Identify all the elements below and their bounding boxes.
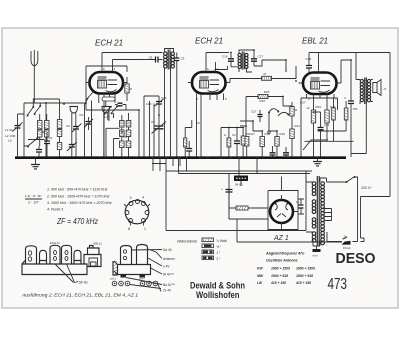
svg-text:3: 3 xyxy=(130,196,132,200)
sketch B bracket xyxy=(113,261,118,275)
svg-text:1μ: 1μ xyxy=(296,200,300,204)
svg-text:Ausführung 2: ECH 21, ECH 21,: Ausführung 2: ECH 21, ECH 21, EBL 21, EM… xyxy=(21,293,138,299)
svg-text:ECH 21: ECH 21 xyxy=(95,39,123,48)
svg-text:C · 10⁶: C · 10⁶ xyxy=(28,201,39,205)
trimmer group 1 xyxy=(112,281,117,286)
svg-text:C5: C5 xyxy=(66,124,70,128)
bus junction dots xyxy=(199,157,201,159)
svg-text:Widerstände: Widerstände xyxy=(177,240,197,244)
wire EBL grid xyxy=(286,66,296,72)
svg-text:2A: 2A xyxy=(344,235,348,239)
wire box over tube2 xyxy=(206,53,229,70)
wire plate tube3 xyxy=(341,53,356,84)
svg-text:L5: L5 xyxy=(8,139,12,143)
trimmer group 2 xyxy=(140,281,145,286)
svg-text:Wollishofen: Wollishofen xyxy=(196,289,240,300)
wire box over tube1 xyxy=(86,53,163,73)
switch S1a pole2 xyxy=(35,107,41,114)
leader lines from trimmers xyxy=(130,285,161,292)
wire antenna to switch xyxy=(24,103,46,157)
ground G1 xyxy=(31,165,40,169)
svg-text:Da 4V: Da 4V xyxy=(163,248,173,252)
resistor block Rd xyxy=(45,130,50,137)
svg-text:R4: R4 xyxy=(124,135,128,139)
trimmer C5 xyxy=(69,145,75,148)
svg-text:R17: R17 xyxy=(250,132,256,136)
sketch A IF can 1 xyxy=(26,246,37,264)
switch S2a xyxy=(105,107,111,114)
resistor R6 xyxy=(126,141,131,148)
tube U2 pin stubs xyxy=(188,53,230,158)
capacitor C20a xyxy=(118,103,123,106)
svg-text:C33: C33 xyxy=(306,57,312,61)
svg-text:220 V~: 220 V~ xyxy=(361,186,373,190)
tube U3 pin stubs xyxy=(299,53,342,111)
svg-text:¼ Watt: ¼ Watt xyxy=(217,239,227,243)
wire transformer drop xyxy=(351,104,366,154)
svg-text:W 4V™: W 4V™ xyxy=(163,273,174,277)
svg-text:4: 4 xyxy=(142,196,144,200)
svg-text:18: 18 xyxy=(129,87,133,91)
switch S1b xyxy=(28,139,37,147)
capacitor C8 xyxy=(156,57,159,63)
sketch A tube can 2 xyxy=(50,245,60,264)
capacitor C17 xyxy=(251,59,257,61)
svg-text:C2: C2 xyxy=(232,133,236,137)
resistor R19 xyxy=(275,137,279,147)
wire xyxy=(28,114,47,146)
svg-text:C8: C8 xyxy=(149,56,153,60)
svg-text:50 Hz: 50 Hz xyxy=(79,281,88,285)
tube U2 ECH21 envelope xyxy=(192,72,226,94)
capacitor C40 electrolytic xyxy=(226,190,233,193)
tube U1 pin stubs xyxy=(86,53,127,111)
svg-text:EBL 21: EBL 21 xyxy=(302,37,328,46)
wire xyxy=(229,157,257,219)
resistor R24 xyxy=(325,110,329,123)
wire tube3 bottom rail xyxy=(301,98,338,157)
svg-text:C9: C9 xyxy=(151,120,155,124)
capacitor C33 xyxy=(306,66,312,69)
svg-text:DESO: DESO xyxy=(336,251,376,267)
svg-text:1: 1 xyxy=(144,227,146,231)
wire speaker line xyxy=(389,53,391,197)
osc coil L8 xyxy=(126,121,131,128)
shield partition xyxy=(85,97,89,157)
svg-text:ZF = 470 kHz: ZF = 470 kHz xyxy=(56,217,98,226)
svg-text:2x 4V: 2x 4V xyxy=(163,289,172,293)
connector lug xyxy=(313,249,321,252)
output transformer T3 xyxy=(360,79,370,101)
svg-text:C4: C4 xyxy=(49,136,53,140)
small value labels xyxy=(49,79,367,140)
svg-text:KW: KW xyxy=(257,267,263,271)
antenna xyxy=(31,50,38,103)
resistor R20 xyxy=(290,107,294,117)
tube U1 ECH21 envelope xyxy=(90,72,124,94)
tube U2 electrodes xyxy=(200,77,209,79)
svg-text:ECH 21: ECH 21 xyxy=(50,241,60,245)
wire T4 top leads xyxy=(306,177,327,183)
chassis sketch A base xyxy=(22,255,101,275)
svg-text:+: + xyxy=(221,188,223,192)
enclosure wire box xyxy=(166,157,306,231)
wire T4 bottom leads xyxy=(306,232,320,249)
junction dots xyxy=(63,49,352,141)
svg-text:04 00: 04 00 xyxy=(235,183,243,187)
svg-text:T: T xyxy=(364,79,366,83)
T4 secondary windings xyxy=(321,182,325,245)
main ground bus xyxy=(15,156,346,159)
sketch A small tube 2 xyxy=(74,250,81,264)
capacitor C3 xyxy=(36,150,42,153)
svg-text:R18: R18 xyxy=(265,132,271,136)
sketch A small tube 1 xyxy=(40,250,47,264)
svg-text:L2 13M: L2 13M xyxy=(5,134,16,138)
wire osc grid xyxy=(106,113,129,157)
svg-text:1r: 1r xyxy=(224,133,227,137)
tube U3 EBL21 envelope xyxy=(303,73,337,95)
chassis sketch B base xyxy=(114,261,151,275)
trimmer C1 xyxy=(15,126,21,129)
svg-text:415 + 150: 415 + 150 xyxy=(295,281,311,285)
svg-text:Abgleichfrequenz 47o: Abgleichfrequenz 47o xyxy=(265,252,305,256)
svg-text:mm: mm xyxy=(313,254,318,258)
capacitor C4 xyxy=(44,141,50,144)
leader lines to 50Hz xyxy=(55,264,78,283)
resistor block Rb xyxy=(45,121,50,130)
node A junction xyxy=(45,102,47,104)
fuse F1 xyxy=(342,241,351,245)
capacitor C29 xyxy=(283,153,289,155)
svg-text:473: 473 xyxy=(328,276,348,293)
svg-text:L·p · d · w²: L·p · d · w² xyxy=(25,194,42,198)
rectifier tube U4 AZ1 xyxy=(270,200,293,223)
resistor R2 xyxy=(125,84,129,93)
svg-text:C10: C10 xyxy=(161,96,167,100)
svg-text:C17: C17 xyxy=(258,55,264,59)
capacitor C34 xyxy=(318,128,324,130)
svg-text:R21: R21 xyxy=(295,124,301,128)
svg-text:12: 12 xyxy=(307,106,311,110)
IF transformer T1 xyxy=(164,52,175,68)
svg-text:1500 + 518: 1500 + 518 xyxy=(296,274,313,278)
wire left drop xyxy=(85,66,87,110)
svg-text:1600 + 1500: 1600 + 1500 xyxy=(296,267,315,271)
mains switch S4 xyxy=(347,177,355,182)
osc coil L9 xyxy=(120,130,125,137)
svg-text:Oszillator Antenne: Oszillator Antenne xyxy=(266,259,298,263)
oscillator section wires xyxy=(86,110,139,157)
svg-text:EBL21: EBL21 xyxy=(94,242,103,246)
sketch A tube can 3 xyxy=(62,245,72,264)
resistor R18 xyxy=(260,137,264,147)
wire box over tube3 xyxy=(309,52,390,54)
svg-text:8: 8 xyxy=(128,227,130,231)
wire grid to tube1 xyxy=(46,93,86,103)
leader lines to right labels xyxy=(126,249,162,285)
svg-text:R1: R1 xyxy=(80,113,84,117)
tube U3 electrodes xyxy=(311,78,320,80)
tube U4 filament xyxy=(275,204,288,217)
filter choke L10 xyxy=(234,176,248,182)
svg-text:750: 750 xyxy=(353,107,358,111)
wire mains top xyxy=(327,181,347,183)
svg-text:C9: C9 xyxy=(196,121,200,125)
heater comb wires xyxy=(152,157,187,171)
resistor R13 xyxy=(241,136,245,145)
T4 primary windings xyxy=(312,182,316,242)
band switch arcs S3 xyxy=(269,109,288,116)
resistor R26v xyxy=(344,108,348,120)
IF transformer T2 xyxy=(238,53,248,68)
resistor Re xyxy=(57,120,62,129)
svg-text:R24: R24 xyxy=(330,105,336,109)
wire screen rail xyxy=(304,131,353,141)
ground G2 xyxy=(313,162,322,166)
svg-text:Antenne: Antenne xyxy=(163,257,175,261)
resistor R23 xyxy=(311,110,315,123)
resistor R16 xyxy=(258,95,268,99)
resistor R25 xyxy=(332,108,336,120)
capacitor C14 xyxy=(186,149,192,152)
trimmer C10 xyxy=(156,102,162,105)
wire diag tube1 cathode xyxy=(86,92,94,101)
svg-text:4. Punkt 3: 4. Punkt 3 xyxy=(47,208,63,212)
svg-text:C20: C20 xyxy=(146,102,152,106)
svg-text:1500 + 518: 1500 + 518 xyxy=(271,274,288,278)
svg-text:1. 600 kHz : 600+470 kHz = 1: 1. 600 kHz : 600+470 kHz = 1130 kHz xyxy=(47,188,108,192)
wire AZ1 leads xyxy=(268,195,298,230)
svg-text:d e f: d e f xyxy=(139,277,145,281)
resistor R17 xyxy=(245,137,249,147)
svg-text:R26: R26 xyxy=(264,90,270,94)
svg-text:2. 600 kHz : 1600+470 kHz = 1: 2. 600 kHz : 1600+470 kHz = 1070 kHz xyxy=(46,195,110,199)
resistor R15 xyxy=(262,76,272,80)
T4 tap leads xyxy=(324,209,332,221)
svg-text:AZ 1: AZ 1 xyxy=(273,235,289,242)
speaker LS xyxy=(373,80,381,96)
wire xyxy=(33,99,59,157)
resistor R30 xyxy=(236,206,248,210)
svg-text:15mA: 15mA xyxy=(343,246,350,250)
wire xyxy=(91,101,93,158)
svg-text:‹ 5: ‹ 5 xyxy=(383,87,387,91)
sketch A speaker unit xyxy=(88,246,100,255)
resistor R21 xyxy=(290,129,294,139)
grid box rail xyxy=(221,128,244,158)
coupling pill L6 xyxy=(102,97,115,101)
svg-text:C34: C34 xyxy=(324,123,330,127)
tube U1 electrodes xyxy=(98,77,107,79)
svg-text:C16: C16 xyxy=(222,55,228,59)
resistor R14 xyxy=(184,138,187,147)
wires into middle network xyxy=(240,113,269,131)
AZ1 enclosure box xyxy=(268,177,298,230)
resistor block Ra xyxy=(38,121,43,130)
capacitor C13 xyxy=(234,141,240,144)
sketch B feet xyxy=(121,275,127,278)
B+ rail lower xyxy=(179,173,311,175)
B+ rail upper xyxy=(166,170,312,172)
capacitor C35 xyxy=(348,101,354,104)
svg-text:MW: MW xyxy=(257,274,264,278)
wire xyxy=(24,132,48,146)
capacitor C27 xyxy=(258,115,263,117)
resistor R5 xyxy=(120,141,125,148)
wire B- return xyxy=(237,219,342,242)
tuning gang C9 xyxy=(155,126,164,129)
trimmer C21 xyxy=(86,122,92,125)
svg-text:LW: LW xyxy=(257,281,263,285)
svg-text:C27: C27 xyxy=(251,110,257,114)
capacitor C16 xyxy=(228,59,234,61)
gang capacitor C2a cup xyxy=(70,106,79,108)
svg-text:C9: C9 xyxy=(181,57,185,61)
svg-text:47: 47 xyxy=(263,72,267,76)
wire verticals under tube2 xyxy=(144,96,159,157)
capacitor C9b xyxy=(174,58,179,61)
resistor R12 xyxy=(227,138,231,147)
switch S1a xyxy=(28,108,34,116)
sketch B tube A xyxy=(121,246,132,265)
power transformer T4 core xyxy=(317,176,319,246)
svg-text:R23: R23 xyxy=(316,105,322,109)
resistor R4 xyxy=(126,130,131,137)
svg-text:Ba 4V™: Ba 4V™ xyxy=(163,283,175,287)
svg-text:L7: L7 xyxy=(105,115,109,119)
osc coil L7 xyxy=(120,121,125,128)
svg-text:R16: R16 xyxy=(260,99,266,103)
capacitor C28 xyxy=(270,153,276,155)
tube socket diagram xyxy=(125,200,149,224)
svg-text:R19: R19 xyxy=(280,132,286,136)
resistor Rf xyxy=(57,130,62,137)
switch S2b xyxy=(112,107,118,114)
resistor Rg xyxy=(57,143,62,150)
trimmer C7 xyxy=(73,127,79,130)
svg-text:ECH 21: ECH 21 xyxy=(195,37,223,46)
svg-text:o 4V: o 4V xyxy=(163,265,170,269)
svg-text:a b c: a b c xyxy=(110,277,117,281)
svg-text:415 + 150: 415 + 150 xyxy=(270,281,286,285)
svg-text:L1 50: L1 50 xyxy=(5,128,13,132)
capacitor C41 electrolytic xyxy=(299,205,304,208)
svg-text:1600 + 1500: 1600 + 1500 xyxy=(271,267,290,271)
wire mains cord xyxy=(355,177,391,242)
svg-text:3. 1600 kHz : 1600+470 kHz = 2: 3. 1600 kHz : 1600+470 kHz = 2070 kHz xyxy=(47,201,112,205)
gang capacitor C2b cup xyxy=(102,106,111,108)
sketch B tube B xyxy=(137,245,148,265)
resistor block Rc xyxy=(38,130,43,137)
